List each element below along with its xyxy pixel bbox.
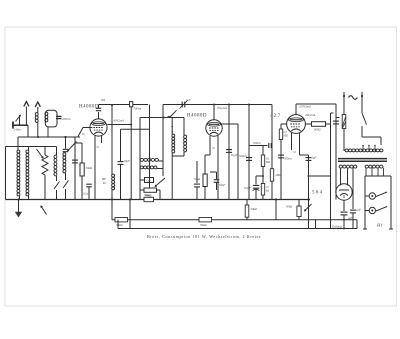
resistor R6 bbox=[203, 174, 207, 200]
wire sec right taps bbox=[366, 168, 384, 176]
svg-text:240m: 240m bbox=[14, 128, 22, 132]
capacitor 200cm bbox=[56, 116, 62, 118]
tube V1 legs bbox=[95, 135, 102, 148]
bias column x281 bbox=[281, 124, 287, 129]
jack J1 bbox=[365, 192, 387, 199]
coil L9 bbox=[184, 118, 187, 152]
switch S4 stage2 bbox=[168, 110, 177, 116]
label R5 bbox=[145, 193, 152, 197]
svg-text:50kΩ: 50kΩ bbox=[86, 166, 93, 170]
wire x133 drop bbox=[130, 107, 132, 200]
wire V2 left leg bbox=[205, 150, 210, 174]
capacitor C9a bbox=[226, 150, 232, 153]
plate lead V3 bbox=[305, 123, 311, 125]
wire antenna bus bbox=[12, 124, 28, 126]
wire B+ stub y176 bbox=[308, 175, 331, 177]
label C9a bbox=[231, 153, 238, 157]
svg-text:2MΩ: 2MΩ bbox=[276, 174, 282, 177]
wire main bus bbox=[6, 199, 311, 201]
tube V3 bbox=[287, 115, 306, 134]
wiper arrow psu bbox=[304, 204, 312, 212]
tube V1 bbox=[90, 119, 107, 136]
label 427 bbox=[270, 114, 281, 119]
label R15 bbox=[276, 174, 282, 177]
resistor R4 in rail1 bbox=[130, 102, 133, 107]
svg-text:50kΩ: 50kΩ bbox=[251, 207, 257, 211]
wire rail B bbox=[112, 220, 357, 229]
svg-text:↓μ: ↓μ bbox=[96, 145, 100, 149]
svg-text:50kΩ: 50kΩ bbox=[145, 193, 152, 197]
resistor R15 2M bbox=[270, 169, 273, 182]
label 40V bbox=[114, 119, 125, 123]
resistor R3 bbox=[80, 163, 84, 200]
coil L7 bbox=[63, 153, 66, 173]
wiper to Gr box bbox=[155, 178, 166, 187]
secondary right bbox=[365, 165, 383, 168]
capacitor C13a bbox=[333, 121, 339, 124]
node junction y137 bbox=[64, 136, 66, 138]
svg-text:500cm: 500cm bbox=[284, 157, 292, 161]
grid lead V1 bbox=[78, 128, 92, 137]
label R10 bbox=[283, 131, 288, 138]
svg-text:300: 300 bbox=[101, 99, 106, 102]
svg-text:kΩ: kΩ bbox=[266, 190, 269, 193]
label 40V bbox=[305, 113, 316, 117]
label C16a bbox=[356, 208, 361, 212]
resistor R14 cathode bbox=[245, 200, 249, 220]
secondary left bbox=[339, 165, 357, 168]
resistor R10 bbox=[279, 129, 282, 200]
wire psu column x308 bbox=[309, 200, 316, 229]
wiper switch S3 bbox=[67, 142, 77, 152]
label C6a bbox=[186, 99, 191, 102]
label HF Dr bbox=[101, 177, 107, 185]
plate line V1 bbox=[107, 124, 132, 126]
svg-text:500cm: 500cm bbox=[239, 154, 247, 158]
coil L4 bbox=[17, 150, 20, 196]
svg-text:50kΩ: 50kΩ bbox=[116, 223, 123, 227]
wire switch line x75 bbox=[74, 137, 76, 200]
wire jack rail top bbox=[365, 175, 391, 177]
wire row left drop bbox=[139, 161, 141, 178]
fuse F1 bbox=[342, 96, 346, 151]
svg-text:40V,2mA: 40V,2mA bbox=[114, 119, 125, 123]
svg-text:50kΩ: 50kΩ bbox=[286, 205, 292, 209]
wire coil L1 to node bbox=[37, 123, 39, 138]
svg-text:600Ω: 600Ω bbox=[314, 128, 320, 132]
switch arrow below bus bbox=[41, 205, 47, 214]
svg-text:500cm: 500cm bbox=[253, 141, 261, 145]
resistor R13 bbox=[199, 218, 212, 222]
wire rail3 bbox=[296, 103, 336, 105]
capacitor C3a on x75 bbox=[72, 160, 78, 163]
svg-text:Gr: Gr bbox=[82, 132, 86, 136]
label C5a bbox=[124, 159, 131, 163]
resistor R12 bbox=[115, 218, 128, 222]
switch S2 bbox=[63, 173, 69, 200]
node railC x344 bbox=[343, 228, 345, 230]
tube V3 legs bbox=[292, 133, 300, 155]
wire winding bottoms bbox=[28, 125, 48, 137]
svg-text:Brevi, Consumption 101 W, Wech: Brevi, Consumption 101 W, Wechselstrom, … bbox=[147, 234, 261, 240]
label 300 bbox=[101, 99, 106, 102]
wire plate drop V2 bbox=[221, 124, 238, 200]
output hook 2 bbox=[336, 117, 340, 119]
junction grid bias bbox=[75, 142, 82, 144]
wire jack left vertical bbox=[363, 176, 367, 229]
resistor R5 bbox=[144, 188, 157, 192]
transformer primary bbox=[345, 149, 383, 152]
wire rail2 bbox=[163, 104, 272, 106]
resistor R11 bbox=[297, 200, 301, 220]
wire rail C left riser bbox=[117, 220, 119, 229]
coil L8 bbox=[171, 118, 174, 153]
primary taps bbox=[362, 145, 376, 151]
node bus x18 bbox=[17, 198, 19, 200]
label C15a bbox=[312, 156, 317, 160]
arrow electrode E2 bbox=[35, 102, 40, 113]
coil L5 bbox=[26, 150, 29, 196]
wire L5 bottom bbox=[28, 196, 30, 200]
wire rail1 bbox=[99, 104, 149, 106]
capacitor C17a 4uF bbox=[341, 212, 348, 228]
label R9 bbox=[314, 128, 320, 132]
label Erdung bbox=[331, 224, 342, 228]
coil L6 bbox=[54, 147, 57, 176]
bias column x82 bbox=[81, 143, 83, 163]
label R6 bbox=[194, 177, 200, 181]
capacitor C8a bbox=[210, 172, 219, 190]
label C12a bbox=[253, 141, 261, 145]
wire cathode drop x95 bbox=[94, 148, 96, 200]
svg-text:50kΩ: 50kΩ bbox=[200, 223, 207, 227]
label 200cm bbox=[62, 117, 71, 121]
coupling row1 bbox=[140, 158, 158, 161]
label H4080D V2 bbox=[187, 114, 207, 119]
label 240m bbox=[14, 128, 22, 132]
output hook 1 bbox=[326, 113, 334, 124]
wire x336 drop bbox=[335, 104, 337, 200]
wire rail2 left drop bbox=[162, 105, 164, 177]
svg-text:427: 427 bbox=[270, 114, 281, 119]
label Hf bbox=[376, 223, 383, 228]
wire C1 feed bbox=[17, 137, 19, 150]
resistor R9 bbox=[312, 122, 326, 127]
capacitor C15a bbox=[306, 158, 312, 161]
wire rail B riser left bbox=[111, 200, 113, 220]
svg-text:15V,2mA: 15V,2mA bbox=[217, 106, 228, 110]
tube V2 bbox=[206, 120, 222, 136]
svg-text:Erdung: Erdung bbox=[331, 224, 342, 228]
transformer core bbox=[338, 159, 387, 162]
capacitor C11a electrolytic bbox=[253, 175, 264, 200]
resistor R7 bbox=[261, 155, 264, 167]
node rail2 x229 bbox=[228, 104, 230, 106]
svg-text:MΩ: MΩ bbox=[283, 135, 288, 138]
svg-text:200cm: 200cm bbox=[62, 117, 71, 121]
label H4080D bbox=[79, 105, 99, 110]
label C11a bbox=[244, 186, 251, 190]
capacitor C16a bbox=[350, 210, 356, 228]
node bus x276 bbox=[275, 198, 277, 200]
label 250V bbox=[299, 105, 311, 109]
svg-text:Hƒ: Hƒ bbox=[376, 223, 383, 228]
label 564 bbox=[312, 191, 323, 196]
node bus x112 bbox=[111, 198, 113, 200]
wire Gr box left bbox=[140, 179, 145, 181]
caption bbox=[147, 234, 261, 240]
svg-text:H4080D: H4080D bbox=[187, 114, 207, 119]
node bus x308 bbox=[307, 198, 309, 200]
wire R5 connections bbox=[140, 178, 160, 200]
node bus x130 bbox=[129, 198, 131, 200]
top cap V3 bbox=[295, 104, 297, 115]
antenna A1 bbox=[13, 115, 21, 129]
ground bbox=[15, 200, 22, 218]
wire fil leads bbox=[341, 168, 348, 185]
label R11 bbox=[286, 205, 292, 209]
svg-text:250V,2mA: 250V,2mA bbox=[299, 105, 311, 109]
svg-text:1nF: 1nF bbox=[186, 99, 191, 102]
wire row ends right bbox=[157, 161, 163, 169]
node railB x344 bbox=[343, 219, 345, 221]
wire R1 feed bbox=[44, 147, 46, 156]
capacitor C7a x197 bbox=[194, 161, 200, 200]
box Gr detector bbox=[145, 178, 154, 183]
wire rail2 end drop x272 bbox=[271, 105, 273, 200]
wire L8 bottom drop bbox=[171, 153, 173, 200]
svg-text:↓μ: ↓μ bbox=[293, 150, 297, 154]
label R3 bbox=[86, 166, 93, 170]
rectifier V4 bbox=[336, 184, 352, 200]
label R7 bbox=[265, 158, 270, 165]
svg-text:564: 564 bbox=[312, 191, 323, 196]
mains terminal 1 bbox=[343, 92, 345, 97]
tube V2 legs bbox=[210, 136, 218, 151]
label uA bbox=[96, 145, 100, 149]
wire feed line y129 bbox=[121, 128, 150, 130]
node y137 x38 bbox=[37, 136, 39, 138]
wire rail C bbox=[118, 228, 357, 230]
svg-text:10μF: 10μF bbox=[124, 159, 131, 163]
label 4uF bbox=[348, 216, 353, 220]
wire jack right vertical bbox=[389, 176, 393, 229]
wire left edge drop bbox=[5, 147, 7, 200]
label C8a bbox=[219, 183, 225, 187]
svg-text:↓μ: ↓μ bbox=[212, 146, 216, 150]
label C4a bbox=[83, 192, 90, 196]
label uA V2 bbox=[212, 146, 216, 150]
svg-text:50kΩ: 50kΩ bbox=[194, 177, 200, 181]
wire rail y137 bbox=[18, 136, 80, 138]
label R12 bbox=[116, 223, 123, 227]
coil L1 under arrow E2 bbox=[35, 113, 38, 123]
svg-text:500cm: 500cm bbox=[134, 107, 142, 111]
mains terminal 2 bbox=[361, 92, 363, 97]
svg-text:MΩ: MΩ bbox=[265, 161, 270, 164]
wire x249 column bbox=[248, 105, 250, 200]
node rail2 x249 bbox=[248, 104, 250, 106]
coupling row2 bbox=[140, 166, 157, 169]
wire rail C riser x130 bbox=[129, 200, 131, 229]
wire x305 column bbox=[300, 155, 309, 200]
wire rect bottom bbox=[343, 200, 345, 211]
top cap V2 bbox=[213, 104, 215, 120]
svg-text:Dr: Dr bbox=[102, 181, 107, 185]
wire x263 column bbox=[262, 146, 264, 200]
svg-text:0,1μF: 0,1μF bbox=[231, 153, 238, 157]
wire x229 column bbox=[228, 105, 230, 200]
capacitor C4a bbox=[86, 184, 92, 199]
wire V2 cathode right bbox=[217, 144, 219, 200]
label C14a bbox=[284, 157, 292, 161]
wire rail B riser x276 bbox=[275, 200, 277, 220]
wire switch jog bbox=[362, 137, 381, 145]
svg-text:0,1μF: 0,1μF bbox=[83, 192, 90, 196]
svg-text:1μF: 1μF bbox=[312, 156, 317, 160]
label R8 bbox=[266, 186, 269, 193]
wire output drop x330 bbox=[330, 124, 332, 229]
wire grid line y117 bbox=[140, 117, 184, 119]
label AC bbox=[349, 96, 358, 100]
coupling winding L3 (rounded frame) bbox=[45, 110, 57, 127]
wire L4 bottom bbox=[19, 196, 21, 200]
svg-text:1μF: 1μF bbox=[356, 208, 361, 212]
capacitor C10a bbox=[246, 158, 252, 161]
label 15V bbox=[217, 106, 228, 110]
label u V3 bbox=[293, 150, 297, 154]
svg-text:40V,2mA: 40V,2mA bbox=[305, 113, 316, 117]
label R4 500 bbox=[134, 107, 142, 111]
trimmer cap C2a bbox=[63, 137, 69, 152]
resistor R2 in bus bbox=[144, 197, 154, 201]
wire L9 bottom bbox=[172, 152, 184, 156]
label R14 bbox=[251, 207, 257, 211]
wire rail1 end drop bbox=[149, 105, 151, 189]
wire rail y146 bbox=[6, 146, 57, 148]
arrow electrode E1 bbox=[24, 102, 29, 126]
wire det link y145 bbox=[249, 143, 271, 148]
label R13 bbox=[200, 223, 207, 227]
svg-text:50nF: 50nF bbox=[219, 183, 225, 187]
resistor R8 bbox=[261, 184, 264, 196]
choke HF Dr bbox=[111, 104, 115, 200]
wire x122 column bbox=[120, 129, 122, 161]
label R2 50k bbox=[144, 193, 151, 197]
jack J2 bbox=[365, 207, 387, 214]
wire R1 bottom bbox=[44, 175, 46, 200]
switch S1 bbox=[54, 176, 60, 200]
top cap V1 bbox=[96, 105, 102, 120]
capacitor C14a bbox=[278, 155, 284, 158]
resistor R1 (variable) bbox=[42, 155, 48, 175]
wiper arrow R1 bbox=[37, 149, 44, 159]
label Gr bbox=[82, 132, 86, 136]
label C10a bbox=[239, 154, 247, 158]
capacitor C5a bbox=[118, 162, 124, 200]
svg-text:0,5μF: 0,5μF bbox=[244, 186, 251, 190]
wire L5 top bbox=[28, 147, 30, 151]
wire row1 left up bbox=[139, 118, 141, 162]
trimmer C6a on rail2 bbox=[180, 101, 188, 109]
wire sec left tap bbox=[352, 168, 354, 209]
switch S5 mains bbox=[362, 96, 367, 137]
